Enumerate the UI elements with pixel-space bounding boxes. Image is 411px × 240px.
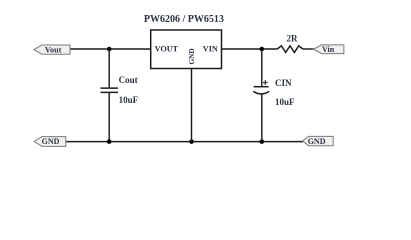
wire: Vout tag to box left pin — [70, 48, 151, 50]
svg-text:Vin: Vin — [322, 45, 335, 54]
wire: ground rail — [66, 141, 303, 143]
svg-text:10uF: 10uF — [275, 97, 295, 107]
node: junction GND pin/ground — [189, 139, 194, 144]
node: junction on Vout wire — [107, 47, 112, 52]
svg-text:Cout: Cout — [119, 75, 138, 85]
wire: junction down to Cout — [108, 49, 110, 88]
port tag GND (left) — [34, 137, 66, 147]
op-amp U1 regulator box — [151, 30, 222, 69]
svg-text:Vout: Vout — [45, 45, 62, 54]
port tag Vin — [314, 45, 344, 54]
svg-text:GND: GND — [308, 137, 326, 146]
wire: CIN down to ground rail — [261, 94, 263, 142]
resistor 2R — [277, 46, 303, 53]
svg-text:VOUT: VOUT — [155, 45, 179, 54]
port tag Vout — [34, 45, 70, 54]
wire: box VIN pin to resistor — [222, 48, 278, 50]
wire: junction down to CIN — [261, 49, 263, 87]
port tag GND (right) — [303, 136, 334, 145]
node: junction Cout/ground — [107, 139, 112, 144]
wire: box GND pin down to ground rail — [191, 69, 193, 142]
svg-text:10uF: 10uF — [119, 95, 139, 105]
wire: Cout down to ground rail — [108, 92, 110, 141]
svg-text:GND: GND — [187, 48, 196, 64]
svg-text:VIN: VIN — [203, 45, 218, 54]
capacitor Cout — [101, 87, 119, 89]
svg-text:CIN: CIN — [275, 78, 292, 88]
node: junction on VIN wire — [260, 47, 265, 52]
polarity mark + — [263, 82, 268, 84]
capacitor CIN (polarized) — [254, 86, 269, 88]
node: junction CIN/ground — [260, 139, 265, 144]
svg-text:2R: 2R — [287, 34, 299, 44]
svg-text:PW6206 / PW6513: PW6206 / PW6513 — [144, 14, 224, 25]
wire: resistor to Vin tag — [303, 48, 314, 50]
svg-text:GND: GND — [42, 137, 60, 146]
